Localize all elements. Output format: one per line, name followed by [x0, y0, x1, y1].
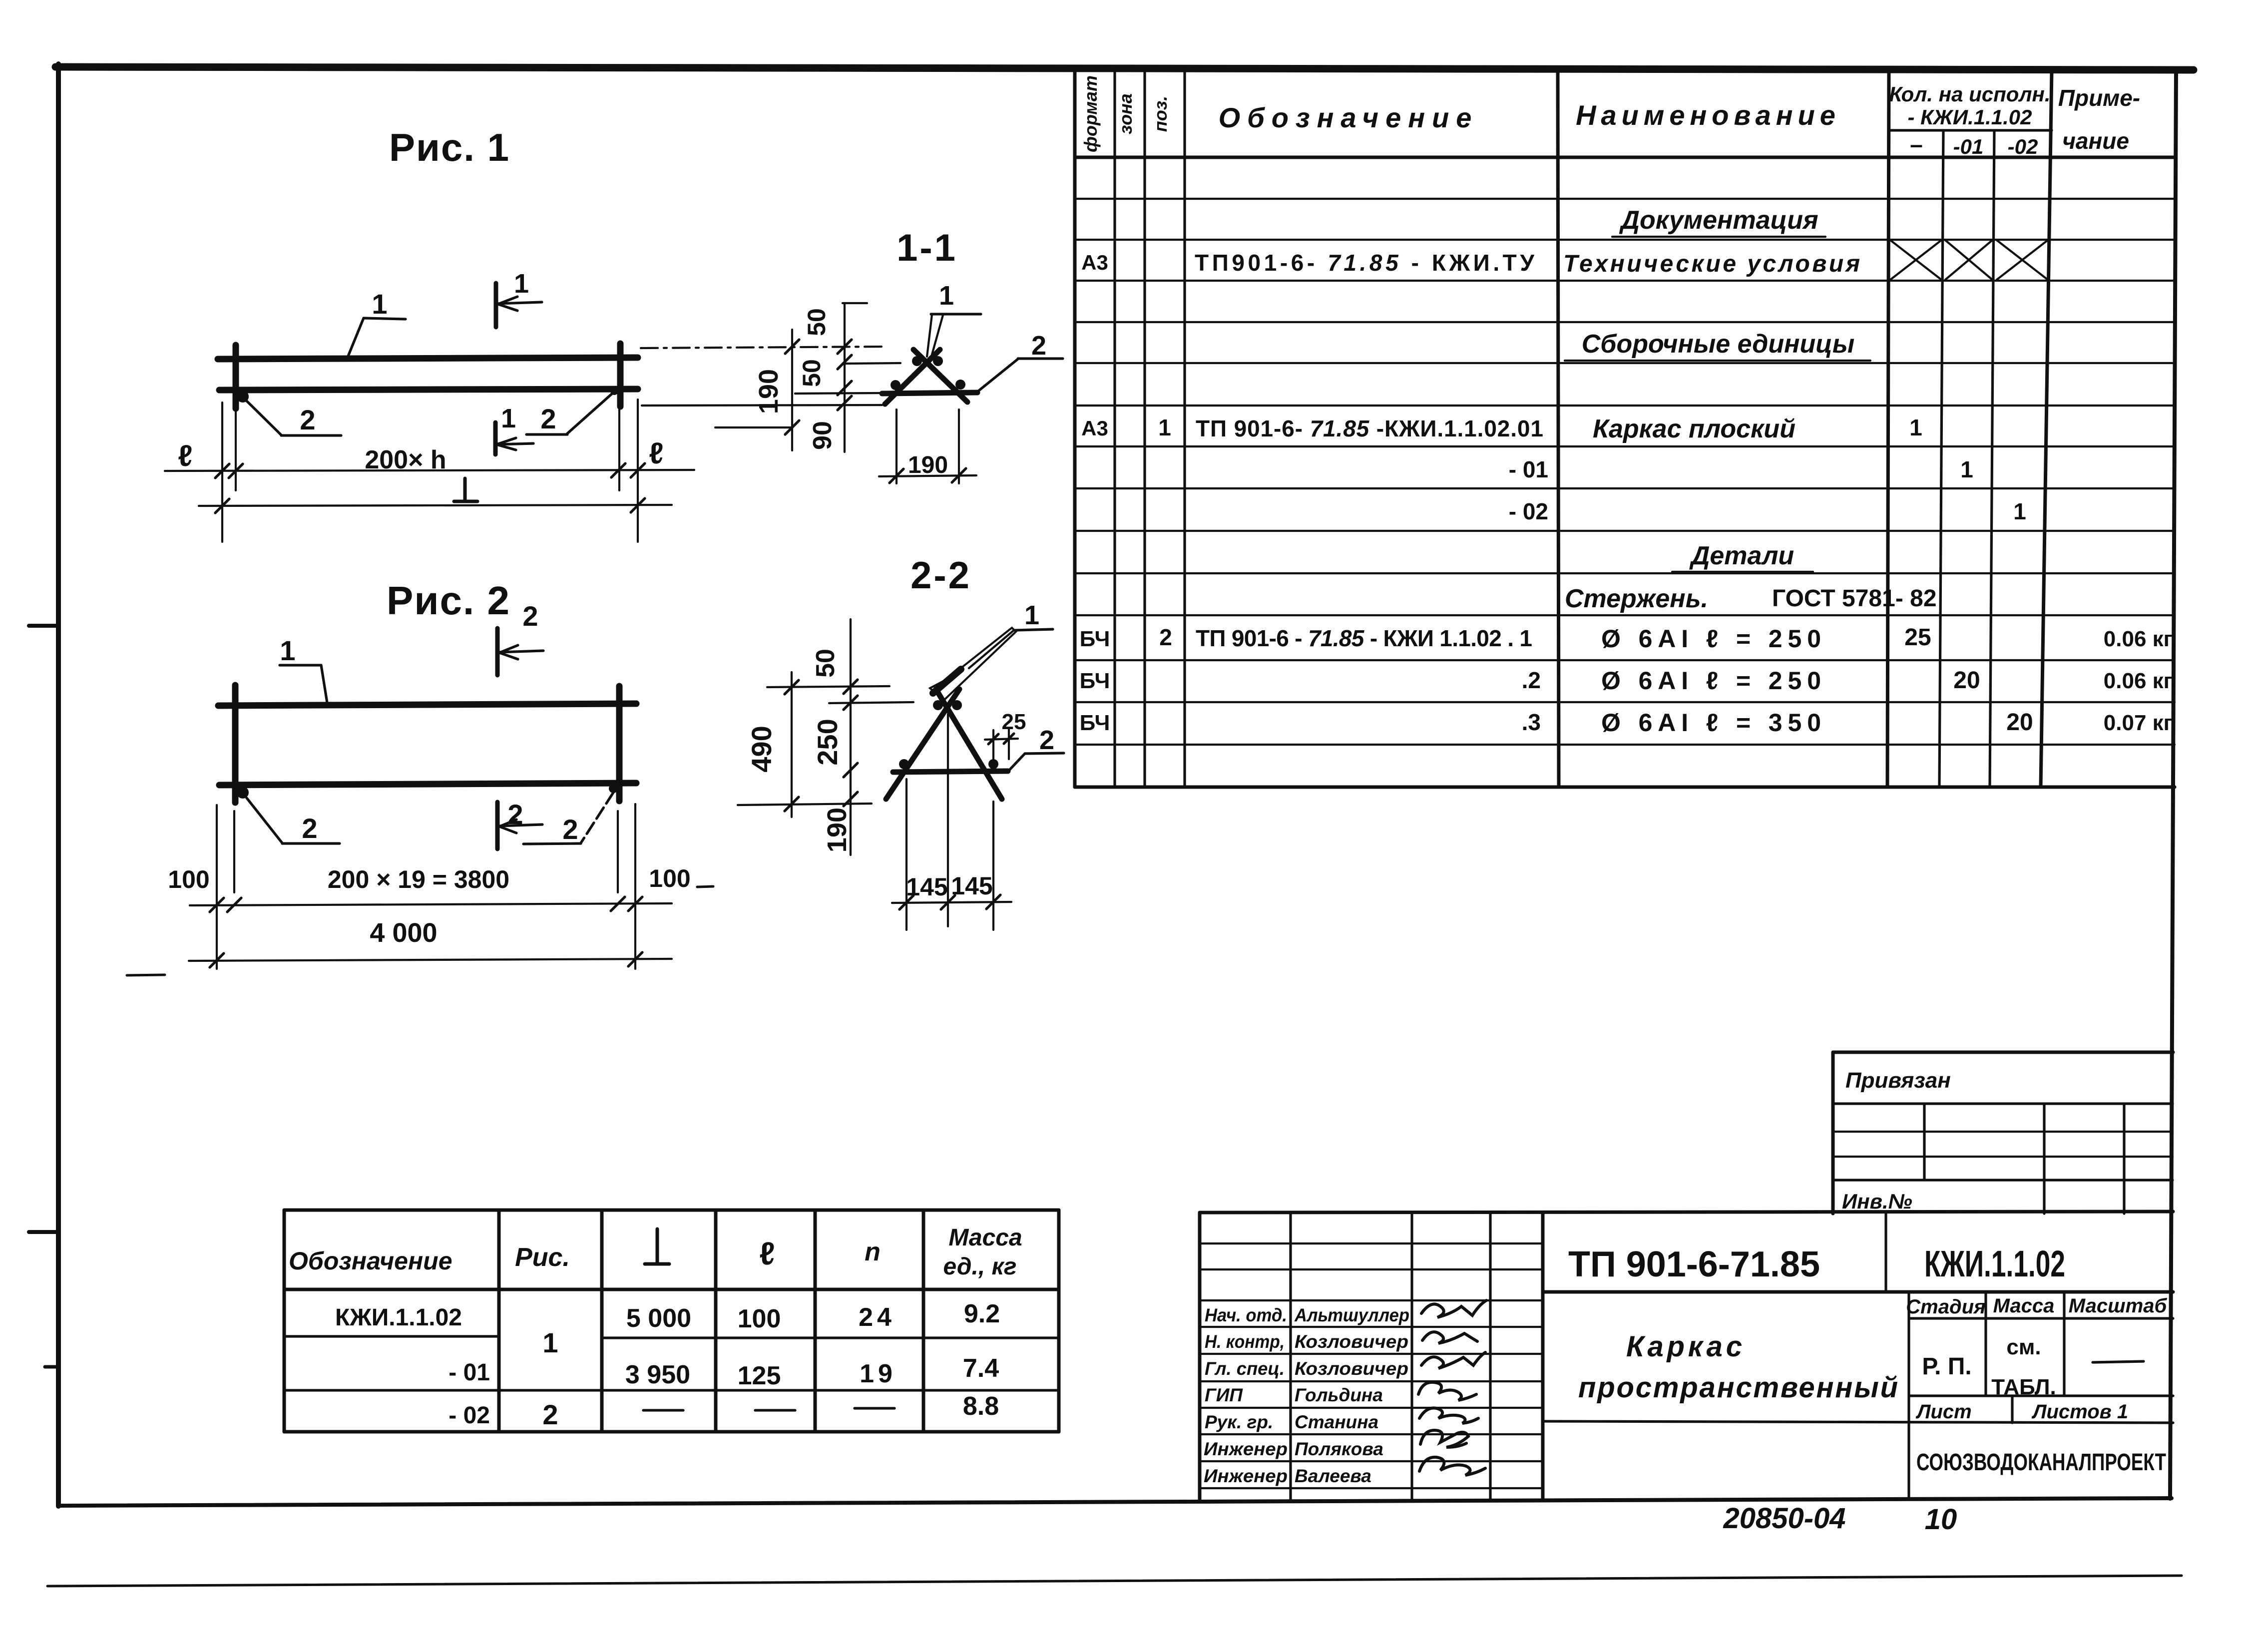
- spec table column poz: [1183, 70, 1186, 787]
- svg-text:90: 90: [808, 421, 837, 450]
- 2-2 bar dot bottom left: [899, 759, 909, 769]
- svg-text:1: 1: [939, 281, 954, 311]
- svg-text:- 02: - 02: [1509, 498, 1548, 524]
- svg-text:2: 2: [1031, 331, 1046, 361]
- svg-text:см.: см.: [2006, 1335, 2041, 1359]
- 2-2 bar dot bottom right: [988, 759, 998, 769]
- 2-2 level line apex: [829, 702, 913, 703]
- svg-text:Наименование: Наименование: [1576, 99, 1840, 131]
- svg-text:1: 1: [2013, 498, 2026, 524]
- title block top border: [1200, 1212, 2173, 1213]
- title doc row bottom: [1543, 1290, 2173, 1294]
- svg-text:Привязан: Привязан: [1845, 1068, 1951, 1093]
- 1-1 leader label 1: [927, 281, 981, 358]
- 1-1 level line lower: [715, 426, 792, 428]
- svg-text:ℓ: ℓ: [178, 439, 192, 472]
- title block col names: [1410, 1213, 1413, 1500]
- svg-text:Лист: Лист: [1915, 1401, 1972, 1423]
- param dash L: [643, 1409, 683, 1411]
- Fig.2 bottom longitudinal bar: [219, 783, 636, 785]
- Fig.1 extension line far right: [637, 400, 639, 542]
- svg-text:БЧ: БЧ: [1080, 669, 1110, 693]
- svg-text:190: 190: [754, 369, 784, 414]
- spec row rod .1: [1080, 624, 2173, 653]
- svg-text:БЧ: БЧ: [1080, 627, 1110, 651]
- name labels: [1294, 1305, 1409, 1486]
- svg-text:1-1: 1-1: [896, 227, 957, 269]
- 2-2 bottom wire: [893, 771, 1008, 772]
- svg-text:БЧ: БЧ: [1080, 711, 1110, 735]
- spec table row line 7: [1075, 445, 2175, 447]
- stray mark near Fig.2: [127, 975, 165, 975]
- Fig.2 extension line far left: [216, 805, 218, 969]
- masshtab dash: [2093, 1361, 2144, 1362]
- Fig.1 section mark 1 lower: [495, 404, 533, 454]
- Fig.1 extension line far left: [221, 403, 223, 542]
- spec table column format: [1113, 70, 1116, 787]
- svg-text:.2: .2: [1522, 667, 1541, 693]
- svg-text:5 000: 5 000: [626, 1304, 691, 1333]
- svg-text:24: 24: [859, 1303, 896, 1332]
- Fig.1 leader label 1: [348, 288, 406, 356]
- spec row karkas ploskiy: [1081, 414, 1922, 443]
- param table col n: [922, 1210, 925, 1432]
- spec table row line 4: [1075, 321, 2175, 323]
- svg-text:Обозначение: Обозначение: [1219, 102, 1479, 133]
- svg-text:50: 50: [803, 308, 831, 336]
- Fig.2 extension line left inner: [233, 811, 235, 892]
- 2-2 dim 25: [985, 710, 1026, 759]
- svg-text:Рис.: Рис.: [515, 1243, 570, 1272]
- connector line lower to section 1-1: [642, 405, 882, 406]
- privyazan box top: [1833, 1051, 2173, 1054]
- svg-text:формат: формат: [1080, 75, 1101, 152]
- svg-text:50: 50: [798, 359, 826, 387]
- spec table subcolumn 02: [1990, 130, 1994, 787]
- Fig.2 extension line far right: [634, 804, 636, 969]
- param table col ris: [600, 1210, 604, 1432]
- spec table column naimenovanie right: [1887, 70, 1889, 787]
- svg-text:ℓ: ℓ: [649, 436, 663, 470]
- svg-text:Рис. 1: Рис. 1: [389, 125, 510, 169]
- page frame top border: [55, 67, 2194, 70]
- svg-text:1: 1: [1024, 600, 1039, 630]
- 1-1 bar dot bottom left: [891, 380, 900, 390]
- svg-text:2: 2: [302, 813, 317, 844]
- svg-text:Масса: Масса: [1993, 1295, 2055, 1317]
- Fig.1 bottom longitudinal bar: [219, 389, 638, 390]
- 2-2 right extension line: [992, 802, 994, 930]
- svg-text:0.06 кг: 0.06 кг: [2104, 627, 2173, 651]
- 1-1 outer dim line 190: [785, 330, 799, 450]
- svg-text:.3: .3: [1522, 709, 1541, 735]
- svg-text:Масштаб: Масштаб: [2069, 1295, 2168, 1317]
- 1-1 right leg wire: [913, 350, 967, 402]
- svg-text:-02: -02: [2008, 135, 2038, 158]
- 1-1 left leg wire: [885, 350, 940, 404]
- svg-text:Станина: Станина: [1295, 1412, 1378, 1432]
- svg-text:- КЖИ.1.1.02: - КЖИ.1.1.02: [1907, 105, 2032, 129]
- svg-text:2: 2: [1039, 725, 1054, 755]
- svg-text:4 000: 4 000: [370, 918, 437, 948]
- Fig.1 dimension line 200xh: [165, 463, 694, 478]
- signature squiggles: [1418, 1300, 1486, 1475]
- spec crossed cell -02: [1997, 240, 2048, 280]
- 2-2 leader label 2: [1008, 725, 1064, 772]
- Fig.2 top longitudinal bar 1: [218, 704, 636, 706]
- svg-text:100: 100: [738, 1304, 781, 1333]
- spec table subcolumn 01: [1939, 130, 1943, 787]
- page frame right border: [2170, 69, 2176, 1499]
- spec row rod .2: [1080, 667, 2173, 695]
- Fig.1 top longitudinal bar 1: [218, 358, 638, 359]
- svg-text:КЖИ.1.1.02: КЖИ.1.1.02: [1924, 1243, 2065, 1284]
- 2-2 bar dot apex left: [933, 700, 943, 710]
- Fig.2 leader label 2 left: [247, 798, 340, 844]
- svg-text:-01: -01: [1953, 135, 1984, 158]
- 2-2 right leg wire: [936, 689, 1002, 799]
- 2-2 bottom dim line 145 145: [892, 895, 1011, 909]
- spec table row line 11: [1075, 614, 2175, 616]
- svg-text:20: 20: [1953, 667, 1980, 694]
- svg-text:7.4: 7.4: [963, 1354, 999, 1383]
- svg-text:19: 19: [860, 1359, 896, 1388]
- 2-2 leader label 1: [969, 600, 1053, 668]
- svg-text:Нач. отд.: Нач. отд.: [1205, 1305, 1287, 1325]
- svg-text:–: –: [1910, 131, 1923, 157]
- svg-text:Н. контр,: Н. контр,: [1205, 1331, 1285, 1352]
- svg-text:2-2: 2-2: [910, 554, 971, 597]
- privyazan row line 1: [1833, 1102, 2173, 1105]
- spec table header bottom: [1075, 156, 2175, 159]
- svg-text:пространственный: пространственный: [1578, 1371, 1898, 1404]
- 1-1 level line apex: [846, 363, 900, 364]
- Fig.1 extension line left inner: [235, 412, 237, 490]
- 2-2 bent bar 1 hook: [930, 628, 1016, 700]
- svg-text:Инженер: Инженер: [1204, 1439, 1288, 1459]
- svg-text:125: 125: [738, 1361, 781, 1390]
- 2-2 bar dot apex right: [952, 700, 962, 710]
- Fig.2 dimension line 200x19=3800: [190, 897, 672, 912]
- svg-text:50: 50: [811, 649, 840, 678]
- svg-text:200× h: 200× h: [365, 445, 446, 474]
- svg-text:2: 2: [507, 799, 523, 830]
- 1-1 bottom wire: [882, 393, 977, 394]
- spec row -01: [1509, 456, 1973, 482]
- 1-1 bottom dim 190: [879, 410, 976, 483]
- svg-text:Р. П.: Р. П.: [1922, 1353, 1971, 1380]
- svg-text:n: n: [865, 1238, 881, 1266]
- privyazan col line c: [2123, 1104, 2125, 1214]
- svg-text:3 950: 3 950: [625, 1360, 690, 1389]
- page frame left border: [56, 64, 61, 1506]
- page frame bottom border: [58, 1498, 2172, 1506]
- Fig.2 weld dot right: [609, 784, 618, 793]
- svg-text:200 × 19 = 3800: 200 × 19 = 3800: [328, 865, 509, 893]
- svg-text:Каркас плоский: Каркас плоский: [1593, 414, 1795, 443]
- Fig.2 extension line right inner: [617, 811, 619, 892]
- spec table row line 9: [1075, 530, 2175, 532]
- svg-text:250: 250: [812, 719, 843, 765]
- svg-text:0.07 кг: 0.07 кг: [2104, 711, 2173, 735]
- svg-text:Козловичер: Козловичер: [1295, 1358, 1408, 1379]
- svg-text:ТП 901-6 - 71.85 - КЖИ 1.1.02: ТП 901-6 - 71.85 - КЖИ 1.1.02 . 1: [1196, 625, 1532, 651]
- svg-text:СОЮЗВОДОКАНАЛПРОЕКТ: СОЮЗВОДОКАНАЛПРОЕКТ: [1916, 1449, 2166, 1476]
- svg-text:А3: А3: [1081, 416, 1108, 440]
- fold mark left lower: [29, 1230, 58, 1234]
- svg-text:Гольдина: Гольдина: [1295, 1385, 1383, 1405]
- title block col signatures: [1489, 1213, 1491, 1500]
- svg-text:Технические условия: Технические условия: [1563, 251, 1860, 277]
- Fig.1 weld dot left: [237, 391, 249, 403]
- spec table column zona: [1143, 70, 1146, 787]
- Fig.1 dimension line L: [199, 498, 672, 513]
- spec table row line 5: [1075, 362, 2175, 364]
- Fig.2 leader label 2 right: [523, 793, 613, 845]
- svg-text:КЖИ.1.1.02: КЖИ.1.1.02: [335, 1304, 462, 1331]
- spec table left border: [1073, 70, 1077, 787]
- spec table header split line: [1889, 129, 2052, 131]
- svg-text:зона: зона: [1115, 93, 1136, 134]
- spec table row line 2: [1075, 239, 2175, 241]
- svg-text:А3: А3: [1081, 251, 1108, 274]
- svg-text:2: 2: [1159, 624, 1172, 650]
- svg-text:ГИП: ГИП: [1205, 1385, 1243, 1405]
- param dash l: [755, 1409, 795, 1411]
- svg-text:чание: чание: [2062, 128, 2129, 154]
- svg-text:2: 2: [540, 403, 556, 434]
- 1-1 bar dot top left: [912, 356, 922, 366]
- privyazan row line 4: [1833, 1179, 2173, 1181]
- svg-text:Валеева: Валеева: [1295, 1466, 1371, 1486]
- spec table row line 8: [1075, 487, 2175, 489]
- svg-text:190: 190: [822, 808, 852, 852]
- svg-text:- 01: - 01: [448, 1359, 490, 1386]
- stadia massa masshtab header row: [1907, 1292, 1910, 1500]
- svg-text:Инв.№: Инв.№: [1842, 1190, 1912, 1213]
- svg-text:Альтшуллер: Альтшуллер: [1294, 1305, 1409, 1325]
- spec table column oboznachenie right: [1558, 70, 1559, 787]
- svg-text:9.2: 9.2: [964, 1299, 1000, 1328]
- svg-text:1: 1: [501, 404, 516, 433]
- svg-text:2: 2: [542, 1399, 558, 1430]
- role labels: [1204, 1305, 1288, 1486]
- spec row Sterzhen GOST: [1565, 584, 1937, 613]
- privyazan row line 2: [1833, 1131, 2173, 1133]
- footer separator line: [47, 1576, 2182, 1586]
- svg-text:ТП 901-6- 71.85 -КЖИ.1.1.02.01: ТП 901-6- 71.85 -КЖИ.1.1.02.01: [1196, 415, 1543, 441]
- 2-2 center extension line: [947, 714, 949, 926]
- 2-2 outer dim line 490: [785, 672, 799, 817]
- svg-text:Кол. на исполн.: Кол. на исполн.: [1889, 82, 2050, 106]
- 2-2 left extension line: [905, 779, 907, 930]
- svg-text:25: 25: [1002, 710, 1026, 734]
- param table header bottom: [284, 1288, 1059, 1291]
- svg-text:190: 190: [908, 452, 948, 478]
- Fig.2 weld dot left: [237, 787, 249, 799]
- svg-text:1: 1: [514, 269, 529, 299]
- svg-text:- 02: - 02: [448, 1402, 490, 1429]
- fold mark left upper: [29, 624, 58, 628]
- svg-text:Рук. гр.: Рук. гр.: [1205, 1412, 1273, 1432]
- svg-text:145: 145: [951, 872, 992, 900]
- param dash n: [855, 1407, 895, 1409]
- title block col roles: [1289, 1213, 1292, 1500]
- spec row A3 tech conditions: [1081, 250, 1860, 277]
- svg-text:Документация: Документация: [1619, 206, 1818, 235]
- svg-text:Козловичер: Козловичер: [1295, 1331, 1408, 1352]
- svg-text:Листов 1: Листов 1: [2031, 1401, 2128, 1423]
- svg-text:2: 2: [522, 600, 538, 632]
- spec table row line 13: [1075, 701, 2175, 703]
- 2-2 level line top: [767, 686, 890, 687]
- svg-text:2: 2: [562, 814, 578, 845]
- param header Massa ed kg: [943, 1225, 1022, 1280]
- privyazan col line a: [1923, 1104, 1925, 1180]
- spec crossed cell -01: [1945, 240, 1992, 280]
- karkas cell bottom line: [1543, 1421, 2173, 1423]
- 1-1 inner dim chain line: [838, 303, 852, 452]
- svg-text:1: 1: [280, 635, 295, 666]
- Fig.1 leader label 2 left: [246, 400, 341, 435]
- Fig.2 left cross wire: [232, 685, 239, 803]
- svg-text:Детали: Детали: [1689, 541, 1794, 570]
- param table col L: [714, 1210, 718, 1432]
- param table col l: [814, 1210, 817, 1432]
- privyazan col line b: [2043, 1104, 2045, 1214]
- spec row rod .3: [1080, 709, 2173, 737]
- list row: [1909, 1394, 2173, 1397]
- spec table row line 6: [1075, 405, 2175, 407]
- privyazan row line 3: [1833, 1156, 2173, 1158]
- Fig.2 dimension line 4000: [189, 952, 672, 967]
- spec row Dokumentaciya: [1612, 206, 1825, 237]
- svg-text:Полякова: Полякова: [1295, 1439, 1383, 1459]
- svg-text:20850-04: 20850-04: [1723, 1502, 1845, 1535]
- svg-text:Обозначение: Обозначение: [289, 1247, 452, 1275]
- svg-text:25: 25: [1904, 624, 1931, 651]
- svg-text:145: 145: [906, 873, 947, 901]
- spec table bottom border: [1075, 786, 2175, 789]
- 2-2 inner dim chain line: [844, 619, 858, 855]
- param header L symbol: [645, 1229, 669, 1264]
- svg-text:ед., кг: ед., кг: [943, 1253, 1017, 1280]
- 1-1 bar dot top right: [933, 356, 943, 366]
- 2-2 level line bottom: [738, 804, 872, 805]
- Fig.2 section mark 2 upper: [497, 600, 543, 675]
- svg-text:1: 1: [542, 1327, 558, 1358]
- svg-text:ГОСТ 5781- 82: ГОСТ 5781- 82: [1772, 585, 1937, 612]
- Fig.1 section mark 1 upper: [496, 269, 542, 327]
- 1-1 leader label 2: [976, 331, 1063, 393]
- title block signature grid rows: [1200, 1243, 1543, 1488]
- fold mark left small: [45, 1365, 58, 1369]
- spec crossed cell dash: [1890, 240, 1941, 280]
- Fig.1 extension line right inner: [618, 410, 620, 490]
- svg-text:1: 1: [1909, 414, 1922, 440]
- svg-text:1: 1: [1158, 414, 1171, 440]
- title block col divider main: [1541, 1213, 1545, 1500]
- spec table row line 14: [1075, 744, 2175, 746]
- svg-text:- 01: - 01: [1509, 456, 1548, 482]
- svg-text:Стержень.: Стержень.: [1565, 584, 1708, 613]
- Fig.1 weld dot right: [610, 387, 618, 395]
- 1-1 level line bottom bar: [795, 393, 881, 394]
- svg-text:Сборочные единицы: Сборочные единицы: [1582, 330, 1855, 359]
- param table row line 1 (skips merged Ris cell): [284, 1336, 1059, 1338]
- spec row Detali: [1672, 541, 1813, 572]
- spec row Sborochnye edinicy: [1565, 330, 1870, 361]
- svg-text:100: 100: [168, 865, 209, 893]
- spec table row line 3: [1075, 280, 2175, 282]
- spec table row line 10: [1075, 572, 2175, 574]
- Fig.2 leader label 1: [280, 635, 327, 703]
- svg-text:Инженер: Инженер: [1204, 1466, 1288, 1486]
- svg-text:8.8: 8.8: [963, 1392, 999, 1421]
- svg-text:Гл. спец.: Гл. спец.: [1205, 1358, 1285, 1379]
- 1-1 top extension stub: [843, 302, 867, 304]
- spec table row line 1: [1075, 198, 2175, 200]
- stray mark near section 2-2: [697, 886, 713, 887]
- svg-text:1: 1: [372, 288, 387, 320]
- spec table row line 12: [1075, 659, 2175, 661]
- Fig.1 left cross wire 2: [233, 345, 239, 409]
- param table outer border: [284, 1210, 1059, 1432]
- connector line upper to section 1-1: [641, 347, 887, 348]
- spec table column primechanie left: [2041, 70, 2052, 787]
- svg-text:Приме-: Приме-: [2058, 85, 2140, 111]
- svg-text:Стадия: Стадия: [1906, 1296, 1985, 1318]
- 2-2 left leg wire: [886, 689, 959, 799]
- svg-text:20: 20: [2006, 709, 2033, 736]
- svg-text:490: 490: [746, 726, 777, 772]
- svg-text:2: 2: [300, 404, 315, 435]
- svg-text:Масса: Масса: [948, 1225, 1022, 1251]
- svg-text:1: 1: [1960, 456, 1973, 482]
- title divider TP / KZHI: [1884, 1213, 1887, 1292]
- svg-text:0.06 кг: 0.06 кг: [2104, 669, 2173, 693]
- svg-text:100: 100: [649, 864, 690, 892]
- title block left border: [1198, 1213, 1202, 1500]
- svg-text:поз.: поз.: [1150, 96, 1171, 132]
- param table col oboznachenie: [497, 1210, 501, 1432]
- Fig.2 section mark 2 lower: [497, 799, 542, 849]
- svg-text:ℓ: ℓ: [759, 1236, 775, 1271]
- spec row -02: [1509, 498, 2026, 524]
- svg-text:Рис. 2: Рис. 2: [387, 578, 510, 623]
- svg-text:ТП 901-6-71.85: ТП 901-6-71.85: [1568, 1244, 1820, 1284]
- Fig.1 L symbol label: [454, 478, 477, 501]
- privyazan box left: [1831, 1052, 1835, 1214]
- svg-text:10: 10: [1925, 1503, 1957, 1536]
- Fig.1 right cross wire 2: [617, 344, 624, 407]
- param table row line 2: [284, 1389, 1059, 1391]
- 1-1 bar dot bottom right: [955, 380, 965, 390]
- Fig.2 right cross wire: [616, 686, 623, 801]
- Fig.1 leader label 2 right: [526, 393, 613, 434]
